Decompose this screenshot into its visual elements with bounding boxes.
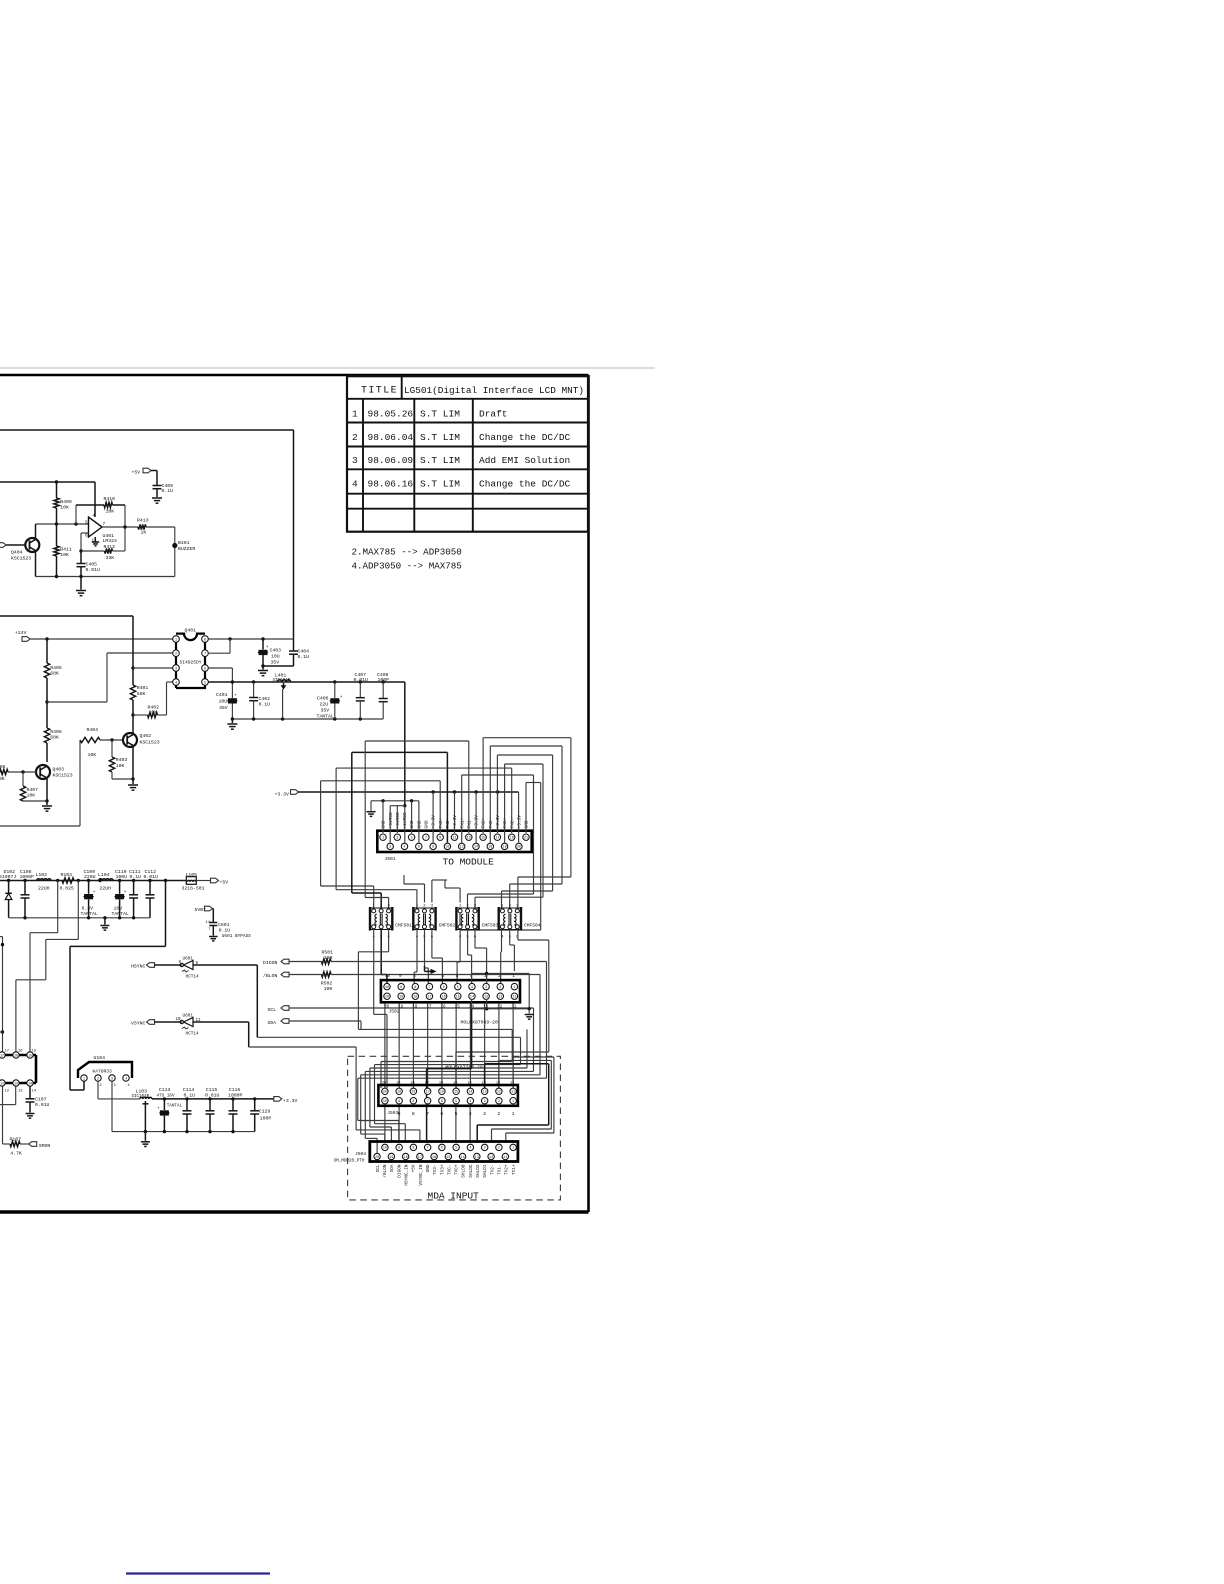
wire bus pin9 to CMF501-1: [439, 781, 441, 833]
svg-text:14: 14: [32, 1089, 37, 1093]
EMI filter CMF501: [370, 904, 392, 939]
svg-text:Draft: Draft: [479, 409, 508, 420]
transistor Q404: [35, 524, 37, 539]
resistor R403: [111, 740, 113, 757]
resistor R410 feedback: [76, 504, 104, 506]
svg-text:1: 1: [83, 1077, 85, 1081]
svg-text:CMF504: CMF504: [524, 923, 541, 929]
svg-text:S.T LIM: S.T LIM: [420, 455, 460, 466]
svg-text:15: 15: [446, 1156, 450, 1160]
svg-text:L104: L104: [98, 872, 110, 878]
schematic frame border: [0, 374, 589, 377]
svg-text:13: 13: [475, 1156, 479, 1160]
inductor L103: [140, 1097, 143, 1099]
power rail +5V: [0, 880, 186, 882]
svg-text:12: 12: [497, 1091, 501, 1095]
svg-text:22U: 22U: [320, 702, 329, 708]
svg-text:20: 20: [517, 846, 521, 850]
svg-text:16: 16: [14, 1054, 18, 1058]
svg-text:17: 17: [0, 1054, 4, 1058]
wire bus pin12 loop to CMF504: [461, 775, 463, 843]
svg-text:VSYNC: VSYNC: [131, 1021, 146, 1027]
svg-text:R501: R501: [322, 950, 334, 956]
svg-text:0.1U: 0.1U: [219, 927, 231, 933]
svg-text:S1907J: S1907J: [0, 874, 16, 880]
J503 pin numbers above: [382, 1081, 515, 1085]
svg-text:Change the DC/DC: Change the DC/DC: [479, 479, 571, 490]
svg-text:15: 15: [456, 996, 460, 1000]
svg-text:22UH: 22UH: [100, 885, 112, 891]
resistor R406: [44, 728, 49, 743]
svg-text:GND: GND: [524, 820, 530, 828]
wire pin3: [133, 667, 173, 669]
svg-text:19: 19: [396, 1081, 400, 1085]
svg-text:MOLEX87069-20: MOLEX87069-20: [461, 1019, 499, 1025]
svg-text:C403: C403: [270, 648, 282, 654]
svg-text:6: 6: [441, 1100, 443, 1104]
J502 pin numbers below: [384, 1006, 517, 1010]
svg-text:KA78R33: KA78R33: [93, 1069, 113, 1075]
svg-text:16V: 16V: [114, 905, 123, 911]
svg-text:SCL: SCL: [268, 1007, 277, 1013]
svg-text:2: 2: [352, 432, 358, 443]
svg-text:SI4925DY: SI4925DY: [180, 660, 202, 666]
svg-text:/BLON: /BLON: [383, 1164, 388, 1178]
svg-text:D102: D102: [4, 869, 16, 875]
op-amp U401 LM324: [89, 517, 103, 537]
capacitor C129: [254, 1099, 256, 1110]
svg-text:20: 20: [375, 1156, 379, 1160]
svg-text:3: 3: [114, 1084, 116, 1088]
svg-text:2.MAX785 --> ADP3050: 2.MAX785 --> ADP3050: [352, 547, 462, 558]
svg-text:0.01U: 0.01U: [354, 677, 369, 683]
svg-text:S.T LIM: S.T LIM: [420, 409, 460, 420]
svg-text:5: 5: [455, 1100, 457, 1104]
svg-text:7: 7: [427, 1147, 429, 1151]
svg-text:U601 BYPASS: U601 BYPASS: [222, 934, 251, 939]
svg-text:20: 20: [382, 1081, 386, 1085]
svg-text:CMF502: CMF502: [439, 923, 456, 929]
svg-text:0.01U: 0.01U: [205, 1093, 220, 1099]
svg-text:4: 4: [469, 1147, 471, 1151]
svg-text:1000P: 1000P: [228, 1093, 243, 1099]
IC U103 partial: [0, 1052, 36, 1087]
svg-text:4: 4: [93, 514, 96, 519]
wire J503 pin11 wrap to J504: [512, 1078, 514, 1088]
svg-text:11: 11: [510, 1081, 514, 1085]
title block: [347, 376, 588, 532]
svg-text:7: 7: [427, 1100, 429, 1104]
svg-text:6: 6: [443, 986, 445, 990]
svg-text:2: 2: [499, 986, 501, 990]
svg-text:R407: R407: [27, 787, 39, 793]
svg-text:J501: J501: [385, 856, 396, 862]
connector J504 body: [370, 1142, 518, 1162]
svg-text:TX2-: TX2-: [490, 1165, 495, 1176]
J502 ground bus: [472, 973, 530, 975]
svg-text:7: 7: [204, 653, 206, 657]
connector J501 body: [377, 831, 531, 852]
svg-text:B401: B401: [178, 540, 190, 546]
svg-text:0.025: 0.025: [60, 885, 75, 891]
capacitor C601: [212, 909, 214, 923]
svg-text:C404: C404: [298, 649, 310, 655]
svg-text:+3.3V: +3.3V: [283, 1098, 298, 1104]
svg-text:10K: 10K: [116, 763, 125, 769]
svg-text:4: 4: [471, 986, 473, 990]
svg-text:20: 20: [385, 996, 389, 1000]
svg-text:7: 7: [103, 522, 106, 527]
op-amp output wire: [102, 526, 138, 528]
svg-text:Change the DC/DC: Change the DC/DC: [479, 432, 571, 443]
capacitor C401: [228, 698, 237, 703]
svg-text:R401: R401: [137, 685, 149, 691]
ground below C401: [231, 719, 233, 723]
svg-text:CMF503: CMF503: [482, 923, 499, 929]
svg-text:6: 6: [440, 1111, 443, 1117]
svg-text:5: 5: [455, 1147, 457, 1151]
svg-text:3: 3: [111, 1077, 113, 1081]
svg-text:TX1-: TX1-: [497, 1165, 502, 1176]
svg-text:10K: 10K: [0, 776, 5, 782]
wire CMF504-5 to J502 pin1: [509, 929, 511, 945]
wire +5V output rail: [208, 681, 404, 683]
svg-text:6: 6: [441, 974, 444, 979]
IC Q401 SI4925DY: [173, 634, 209, 688]
capacitor C113 tantal: [163, 1099, 165, 1110]
svg-text:98.05.26: 98.05.26: [368, 409, 414, 420]
EMI filter CMF502: [413, 904, 435, 939]
wire bus pin17 right loop: [496, 755, 498, 833]
svg-text:16: 16: [439, 1081, 443, 1085]
J502 pin7 arrow marker: [431, 969, 437, 974]
capacitor C405: [80, 551, 82, 563]
svg-text:2: 2: [498, 1147, 500, 1151]
svg-text:100P: 100P: [378, 677, 390, 683]
wire bus pin15 right loop: [482, 738, 484, 833]
svg-text:10: 10: [385, 986, 389, 990]
svg-text:R107: R107: [10, 1137, 22, 1143]
svg-text:4.7K: 4.7K: [10, 1150, 22, 1156]
svg-text:MOLEX87264-20: MOLEX87264-20: [445, 1064, 483, 1070]
svg-text:Add EMI Solution: Add EMI Solution: [479, 455, 570, 466]
svg-text:8: 8: [412, 1111, 415, 1117]
svg-text:J503: J503: [387, 1110, 398, 1116]
svg-text:DIGON: DIGON: [397, 1164, 402, 1178]
svg-text:SCL: SCL: [376, 1164, 381, 1172]
svg-text:33K: 33K: [106, 555, 115, 561]
svg-text:1: 1: [512, 974, 515, 979]
capacitor C404: [293, 639, 295, 651]
port input to Q404 base: [0, 543, 6, 548]
ground below C403: [262, 666, 264, 670]
blue underline: [126, 1572, 270, 1574]
svg-text:13: 13: [467, 837, 471, 841]
svg-text:14: 14: [470, 996, 474, 1000]
ground below L103: [144, 1132, 146, 1141]
svg-text:GND: GND: [381, 820, 387, 828]
svg-text:68K: 68K: [137, 691, 146, 697]
wire +3.3V rail to J501: [299, 791, 519, 793]
svg-text:10K: 10K: [149, 710, 158, 716]
svg-text:R502: R502: [321, 981, 333, 987]
resistor R104: [62, 878, 74, 883]
resistor R107: [3, 1143, 11, 1145]
wire bus pin10 to CMF501-2: [446, 752, 448, 842]
power ground rail: [9, 917, 150, 919]
svg-text:6: 6: [85, 534, 88, 539]
wire pin7 tie: [208, 652, 230, 654]
svg-text:SHLD2: SHLD2: [476, 1164, 481, 1178]
svg-text:15: 15: [453, 1081, 457, 1085]
inductor L104: [99, 879, 103, 881]
resistor R413: [138, 524, 146, 529]
wire CMF504-4 to J502 pin2: [501, 929, 503, 952]
svg-text:22UH: 22UH: [38, 885, 50, 891]
svg-text:0.01U: 0.01U: [35, 1102, 50, 1108]
svg-text:220U: 220U: [84, 874, 96, 880]
wire CMF502-4 to J502 pin8: [416, 929, 418, 972]
svg-text:MDA INPUT: MDA INPUT: [428, 1190, 480, 1201]
svg-text:C115: C115: [206, 1087, 218, 1093]
svg-text:TANTAL: TANTAL: [81, 911, 98, 917]
J501 +5VMOD net: [403, 804, 406, 807]
svg-text:U104: U104: [94, 1055, 106, 1061]
svg-text:J504: J504: [355, 1151, 366, 1157]
connector J503 body: [378, 1085, 518, 1106]
svg-text:19: 19: [399, 996, 403, 1000]
svg-text:+: +: [234, 694, 237, 699]
resistor R405: [46, 639, 48, 663]
capacitor C408: [382, 682, 384, 698]
svg-text:19: 19: [389, 1156, 393, 1160]
wire U104 pin2 to L103: [97, 1081, 99, 1099]
svg-text:+: +: [340, 695, 343, 700]
svg-text:+24V: +24V: [15, 630, 27, 636]
svg-text:4: 4: [125, 1077, 127, 1081]
svg-text:1000P: 1000P: [20, 874, 35, 880]
svg-text:1K: 1K: [141, 530, 147, 536]
svg-text:100: 100: [324, 955, 333, 961]
ground below C601: [209, 936, 218, 938]
svg-text:98.06.09: 98.06.09: [368, 455, 414, 466]
wire J503 pin13 wrap to J504: [484, 1064, 486, 1088]
staircase wire to pin16: [77, 881, 79, 940]
svg-text:+3.3V: +3.3V: [452, 815, 458, 829]
wire Q402 collector vertical: [132, 616, 134, 685]
J503 pin numbers below: [398, 1111, 515, 1117]
svg-text:13: 13: [18, 1089, 23, 1093]
svg-text:3216-501: 3216-501: [182, 885, 205, 891]
wire U104 pin3 ground bus: [111, 1081, 113, 1131]
svg-text:+: +: [157, 1106, 160, 1111]
svg-text:1: 1: [512, 1100, 514, 1104]
svg-text:100U: 100U: [116, 874, 128, 880]
J502 pin numbers above: [385, 974, 515, 979]
resistor R407: [22, 772, 24, 786]
svg-text:13: 13: [483, 1091, 487, 1095]
svg-text:C108: C108: [20, 869, 32, 875]
svg-text:+: +: [93, 890, 96, 895]
connector J502 body: [381, 980, 520, 1002]
svg-text:18: 18: [411, 1091, 415, 1095]
svg-text:11: 11: [512, 996, 516, 1000]
svg-text:SHLD1: SHLD1: [483, 1164, 488, 1178]
svg-text:0.1U: 0.1U: [298, 654, 310, 660]
svg-text:SMON: SMON: [39, 1143, 51, 1149]
svg-text:7: 7: [425, 837, 427, 841]
svg-text:TANTAL: TANTAL: [112, 911, 129, 917]
svg-text:TO MODULE: TO MODULE: [443, 857, 495, 868]
svg-text:J502: J502: [389, 1008, 400, 1014]
svg-text:HSYNC: HSYNC: [131, 964, 146, 970]
svg-text:10K: 10K: [106, 509, 115, 515]
svg-text:12: 12: [5, 1089, 10, 1093]
wire SCL route: [289, 1007, 534, 1009]
wire CMF503-6 to J502 pin3: [474, 929, 476, 948]
svg-text:SDA: SDA: [390, 1164, 395, 1172]
wire top-left horizontal: [0, 429, 294, 431]
svg-text:1: 1: [512, 1111, 515, 1117]
capacitor C402: [253, 682, 255, 697]
svg-text:15: 15: [454, 1091, 458, 1095]
svg-text:SHLDC: SHLDC: [469, 1164, 474, 1178]
svg-text:HCT14: HCT14: [186, 975, 200, 980]
svg-text:3: 3: [396, 837, 398, 841]
svg-text:4: 4: [469, 1111, 472, 1117]
svg-text:1: 1: [175, 638, 177, 642]
svg-text:Q402: Q402: [140, 733, 152, 739]
wire inverting input: [81, 532, 89, 534]
svg-text:VSYNC_IN: VSYNC_IN: [419, 1164, 424, 1185]
svg-text:SHLD0: SHLD0: [462, 1164, 467, 1178]
svg-text:C110: C110: [115, 869, 127, 875]
svg-text:C116: C116: [229, 1087, 241, 1093]
capacitor C109 tantal: [88, 881, 90, 894]
svg-text:47U 16V: 47U 16V: [157, 1094, 175, 1099]
capacitor C108: [24, 881, 26, 895]
wire Q403 emitter to ground: [46, 778, 48, 802]
svg-text:+3.3V: +3.3V: [275, 791, 290, 797]
resistor R412: [81, 550, 105, 552]
svg-text:5: 5: [456, 974, 459, 979]
wire Q403 base: [8, 771, 36, 773]
wire Q402 emitter ground: [132, 746, 134, 780]
svg-text:4: 4: [128, 1084, 130, 1088]
regulator U104 KA78R33: [78, 1062, 132, 1078]
svg-text:0.1U: 0.1U: [162, 488, 174, 494]
svg-text:+3.3V: +3.3V: [516, 815, 522, 829]
svg-text:3: 3: [352, 455, 358, 466]
svg-text:KSC1523: KSC1523: [11, 556, 31, 562]
svg-text:C405: C405: [86, 562, 98, 568]
wire J503 pin12 wrap to J504: [498, 1060, 500, 1088]
svg-text:21: 21: [524, 837, 528, 841]
svg-text:GND: GND: [426, 1164, 431, 1172]
wire CMF501-4 to J503 col20: [373, 929, 375, 1015]
ground below C107: [26, 1113, 35, 1115]
svg-text:TX3-: TX3-: [433, 1165, 438, 1176]
svg-text:17: 17: [418, 1156, 422, 1160]
svg-text:8: 8: [204, 638, 206, 642]
svg-text:TX1-: TX1-: [466, 818, 472, 829]
svg-text:10K: 10K: [60, 552, 69, 558]
svg-text:14: 14: [474, 846, 478, 850]
svg-text:Q404: Q404: [11, 550, 23, 556]
wire pin13 stub: [15, 1087, 17, 1105]
resistor R404: [80, 737, 100, 742]
svg-text:+5V: +5V: [132, 470, 141, 476]
EMI filter CMF503: [456, 904, 478, 939]
svg-text:BUZZER: BUZZER: [178, 546, 195, 552]
svg-text:DIGON: DIGON: [263, 960, 278, 966]
svg-text:100: 100: [324, 986, 333, 992]
svg-text:Q403: Q403: [53, 767, 65, 773]
port +3.3V lower: [274, 1097, 282, 1102]
svg-text:20: 20: [383, 1091, 387, 1095]
wire CMF504-6 right wrap to J503: [517, 929, 519, 940]
wire CMF503-5 to J502 pin4: [467, 929, 469, 955]
svg-text:TX1+: TX1+: [512, 1164, 517, 1175]
wire y616 from left: [0, 615, 133, 617]
svg-text:15: 15: [32, 1049, 37, 1053]
wire /BLON route: [331, 974, 540, 976]
svg-text:TX0+: TX0+: [438, 817, 444, 828]
svg-text:C113: C113: [159, 1087, 171, 1093]
svg-text:35V: 35V: [271, 660, 280, 666]
svg-text:0.1U: 0.1U: [130, 874, 142, 880]
svg-text:98.06.16: 98.06.16: [368, 479, 414, 490]
MDA INPUT dashed box: [348, 1056, 561, 1200]
svg-text:14: 14: [206, 921, 211, 925]
inductor L102: [37, 879, 41, 881]
wire R405-R406 node to pin2: [46, 678, 48, 728]
svg-text:KSC1523: KSC1523: [140, 740, 160, 746]
svg-text:10K: 10K: [60, 505, 69, 511]
staircase wire to pin15: [57, 881, 59, 933]
wire CMF503 pins stubs: [459, 888, 461, 903]
wire VSYNC route: [193, 1021, 249, 1023]
svg-text:LG501(Digital Interface LCD MN: LG501(Digital Interface LCD MNT): [404, 385, 584, 396]
svg-text:16: 16: [440, 1091, 444, 1095]
svg-text:17: 17: [427, 996, 431, 1000]
svg-text:SDA: SDA: [268, 1020, 277, 1026]
svg-text:4: 4: [352, 479, 358, 490]
capacitor C112: [149, 881, 151, 895]
capacitor C406 tantal: [334, 682, 336, 698]
svg-text:7: 7: [426, 1111, 429, 1117]
svg-text:L103: L103: [136, 1088, 148, 1094]
wire CMF501-6 loop: [388, 929, 390, 952]
svg-text:4.ADP3050 --> MAX785: 4.ADP3050 --> MAX785: [352, 561, 462, 572]
svg-text:L105: L105: [186, 872, 198, 878]
svg-text:7: 7: [427, 974, 430, 979]
svg-text:L401: L401: [275, 673, 287, 679]
svg-text:+5VMOD: +5VMOD: [395, 812, 401, 829]
wire right vertical to DC/DC rail: [293, 430, 295, 639]
svg-text:12: 12: [489, 1156, 493, 1160]
svg-text:2: 2: [97, 1077, 99, 1081]
svg-text:12: 12: [460, 846, 464, 850]
wire pin17 vertical: [0, 936, 3, 938]
svg-text:100P: 100P: [260, 1115, 272, 1121]
svg-text:13: 13: [482, 1081, 486, 1085]
svg-text:0.1U: 0.1U: [259, 702, 271, 708]
svg-text:19: 19: [397, 1091, 401, 1095]
svg-text:C112: C112: [145, 869, 157, 875]
svg-text:C402: C402: [259, 696, 271, 702]
wire CMF503-4 to J502 pin5: [459, 929, 461, 962]
